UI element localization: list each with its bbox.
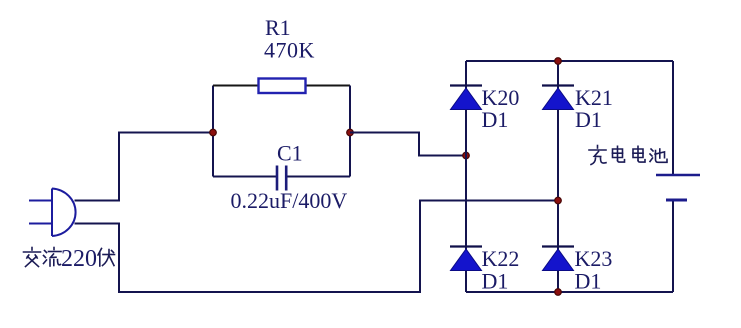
diode K23 (542, 247, 574, 271)
glyph 池 (650, 149, 667, 162)
junction node bridge left input (463, 152, 470, 159)
wire battery bottom lead (672, 200, 674, 292)
glyph 交 (24, 248, 41, 267)
wire bridge top (466, 60, 673, 62)
glyph 伏 (98, 249, 115, 267)
RC network bottom wire right (287, 176, 350, 178)
glyph 电 (2nd) (633, 146, 645, 162)
svg-text:D1: D1 (482, 107, 509, 132)
diode K22 (450, 247, 482, 271)
battery plates (656, 175, 700, 200)
label 充电电池 (drawn glyphs) (589, 146, 667, 165)
wire plug top to corner (75, 133, 213, 201)
svg-text:D1: D1 (575, 107, 602, 132)
svg-text:K23: K23 (575, 246, 613, 271)
glyph 流 (44, 248, 62, 267)
junction node mid right (555, 197, 562, 204)
svg-text:220: 220 (61, 246, 97, 272)
wire plug bottom to right bridge leg (75, 201, 558, 293)
svg-text:D1: D1 (482, 269, 509, 294)
junction node left RC (210, 129, 217, 136)
wire bridge right vertical (557, 61, 559, 292)
capacitor C1 plates (277, 166, 286, 191)
AC plug (29, 189, 76, 237)
label 交流220伏 (drawn glyphs) (24, 248, 115, 267)
diode K20 (450, 86, 482, 110)
svg-text:K22: K22 (482, 246, 520, 271)
junction node bottom (555, 289, 562, 296)
wire bridge bottom (466, 291, 673, 293)
wire RC output to bridge left (350, 133, 466, 156)
wire battery top lead (672, 61, 674, 175)
svg-text:R1: R1 (265, 15, 291, 40)
RC network bottom wire left (213, 176, 276, 178)
junction node top (555, 58, 562, 65)
RC network left vertical (212, 86, 214, 177)
svg-text:470K: 470K (264, 38, 315, 63)
resistor R1 (259, 79, 306, 94)
wire bridge left vertical (465, 61, 467, 292)
junction node right RC (347, 129, 354, 136)
RC network right vertical (349, 86, 351, 177)
svg-text:0.22uF/400V: 0.22uF/400V (231, 188, 348, 213)
glyph 充 (589, 146, 606, 165)
glyph 电 (1st) (613, 146, 625, 162)
RC network top wire (213, 85, 350, 87)
svg-text:D1: D1 (575, 269, 602, 294)
diode K21 (542, 86, 574, 110)
svg-text:C1: C1 (277, 141, 303, 166)
